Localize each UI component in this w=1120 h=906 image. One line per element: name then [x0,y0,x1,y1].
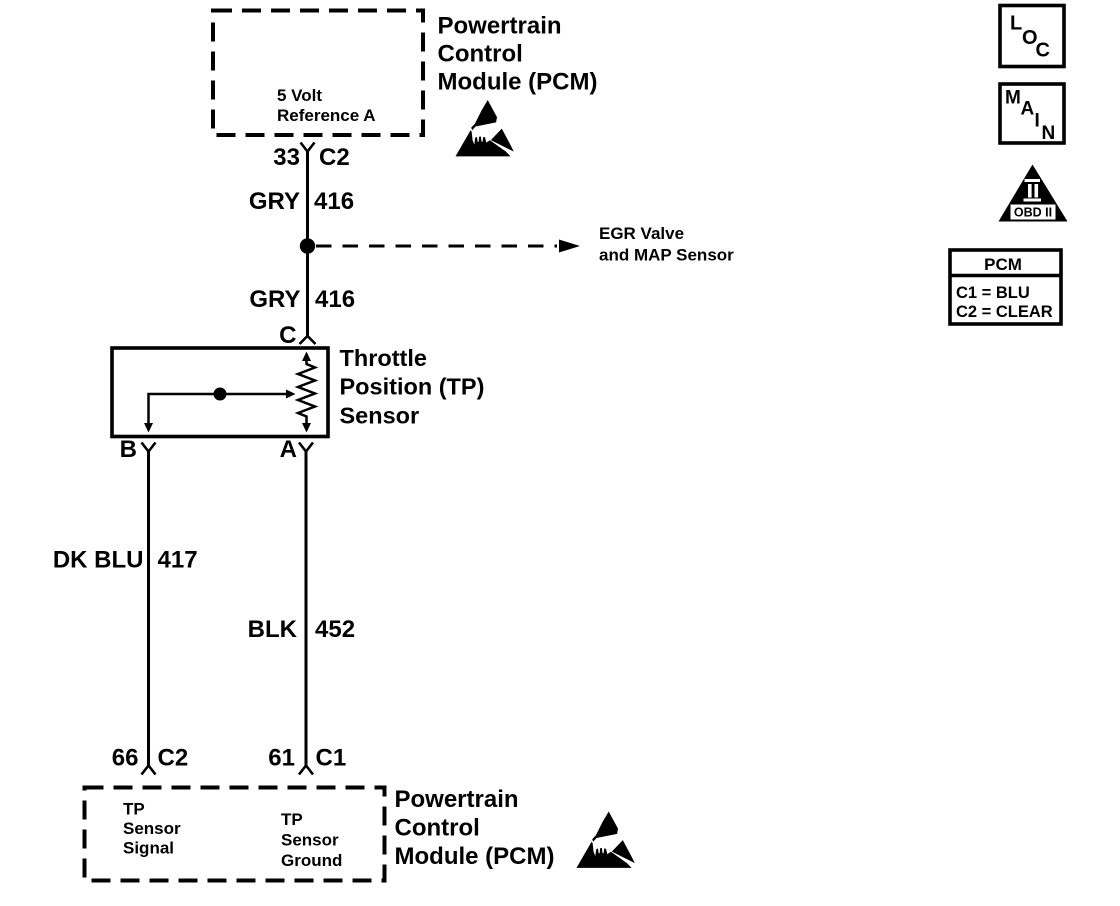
wire GRY 416 (vertical, PCM to TP sensor) [306,152,309,337]
svg-text:L: L [1010,13,1022,35]
svg-text:C2 = CLEAR: C2 = CLEAR [956,303,1053,321]
svg-text:A: A [280,436,297,463]
dashed branch wire to EGR Valve and MAP Sensor [316,245,557,248]
OBD II symbol (triangle) [999,165,1068,222]
svg-text:GRY: GRY [249,286,300,313]
svg-text:Module (PCM): Module (PCM) [395,843,555,870]
svg-text:Signal: Signal [123,839,174,858]
svg-text:416: 416 [314,188,354,215]
svg-text:GRY: GRY [249,188,300,215]
label: Powertrain Control Module (PCM) top [438,13,598,96]
MAIN reference box [1000,84,1064,143]
svg-text:33: 33 [273,144,300,171]
svg-text:C2: C2 [158,745,189,772]
svg-text:Throttle: Throttle [340,345,427,371]
connector fork (male) pin 61 [299,766,313,775]
arrowhead to EGR Valve [559,240,580,253]
svg-text:5 Volt: 5 Volt [277,86,322,105]
wiper arrowhead (right) [286,390,296,399]
dashed box: Powertrain Control Module (PCM) top [213,11,423,136]
svg-text:C1: C1 [316,745,347,772]
svg-text:417: 417 [158,547,198,574]
svg-text:BLK: BLK [248,616,298,643]
OBD II label plate [1011,205,1056,220]
svg-text:PCM: PCM [984,255,1022,274]
label: EGR Valve and MAP Sensor [599,224,734,265]
connector fork (male) pin C [300,336,316,344]
ESD symbol bottom [577,812,635,868]
svg-text:and MAP Sensor: and MAP Sensor [599,246,734,265]
connector fork (female) pin 33 C2 [301,143,315,152]
svg-text:C: C [279,322,296,349]
svg-text:61: 61 [268,745,295,772]
ESD symbol top [456,100,514,156]
svg-text:Powertrain: Powertrain [438,13,562,40]
connector fork (female) pin B [142,443,156,452]
svg-text:Control: Control [395,815,480,842]
TP Sensor box [112,348,328,437]
svg-text:I: I [1035,111,1040,132]
svg-text:Sensor: Sensor [340,403,420,429]
svg-text:TP: TP [123,800,145,819]
MAIN letters [1005,88,1055,145]
label: Throttle Position (TP) Sensor [340,345,485,429]
LOC letters [1010,13,1050,62]
svg-text:452: 452 [315,616,355,643]
junction dot EGR branch [300,238,315,253]
svg-text:Module (PCM): Module (PCM) [438,69,598,96]
wiper junction dot [214,388,227,401]
PCM legend divider [950,274,1061,278]
svg-text:M: M [1005,88,1021,109]
label: TP Sensor Ground [281,810,342,870]
svg-text:Ground: Ground [281,851,342,870]
label: TP Sensor Signal [123,800,181,858]
svg-text:B: B [120,436,137,463]
svg-text:EGR Valve: EGR Valve [599,224,684,243]
label: Powertrain Control Module (PCM) bottom [395,786,555,870]
svg-text:C: C [1036,40,1050,62]
wire BLK 452 (A to PCM 61) [305,452,308,766]
potentiometer resistive element with end arrows [298,359,315,425]
dashed box: Powertrain Control Module (PCM) bottom [85,788,385,881]
label: 5 Volt Reference A [277,86,376,125]
svg-text:N: N [1042,123,1056,144]
svg-text:Position (TP): Position (TP) [340,374,485,400]
svg-text:Sensor: Sensor [123,819,181,838]
svg-text:Reference A: Reference A [277,106,376,125]
svg-text:C2: C2 [319,144,350,171]
svg-text:Powertrain: Powertrain [395,786,519,813]
svg-text:TP: TP [281,810,303,829]
wiper arm [149,394,288,424]
svg-text:66: 66 [112,745,139,772]
svg-text:416: 416 [315,286,355,313]
svg-text:C1 = BLU: C1 = BLU [956,284,1030,302]
PCM connector legend table [950,250,1061,324]
svg-text:A: A [1021,99,1035,120]
svg-text:Sensor: Sensor [281,831,339,850]
wiper arrowhead (down) [144,423,153,433]
potentiometer bottom arrowhead [302,423,311,433]
connector fork (male) pin 66 [142,766,156,775]
potentiometer top arrowhead [302,352,311,362]
svg-text:OBD II: OBD II [1014,206,1052,220]
svg-text:DK BLU: DK BLU [53,547,144,574]
OBD II roman numeral II [1024,179,1042,202]
svg-text:Control: Control [438,41,523,68]
wire DK BLU 417 (B to PCM 66) [147,452,150,766]
connector fork (female) pin A [299,443,313,452]
LOC reference box [1000,6,1064,67]
